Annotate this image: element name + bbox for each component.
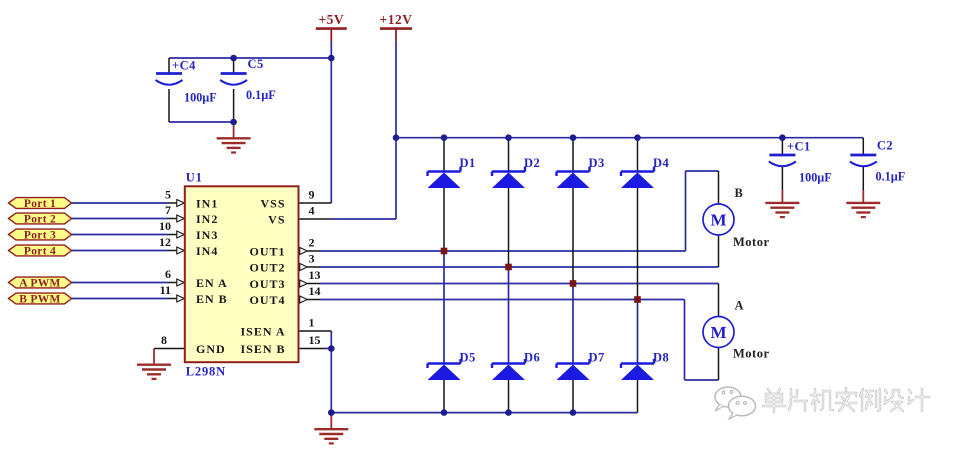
- svg-text:5: 5: [165, 188, 171, 202]
- svg-text:D7: D7: [589, 351, 605, 365]
- svg-text:15: 15: [309, 333, 321, 347]
- svg-text:IN3: IN3: [196, 228, 218, 242]
- svg-text:+C1: +C1: [787, 140, 811, 154]
- svg-text:GND: GND: [196, 342, 226, 356]
- svg-text:1: 1: [309, 316, 315, 330]
- svg-text:3: 3: [309, 252, 315, 266]
- svg-text:Port 2: Port 2: [24, 214, 56, 226]
- svg-text:8: 8: [161, 333, 167, 347]
- svg-text:100µF: 100µF: [799, 171, 832, 185]
- svg-text:IN2: IN2: [196, 212, 218, 226]
- svg-text:IN1: IN1: [196, 196, 218, 210]
- svg-text:L298N: L298N: [186, 365, 226, 379]
- svg-text:7: 7: [165, 203, 171, 217]
- svg-text:Port 4: Port 4: [24, 246, 56, 258]
- svg-text:Port 1: Port 1: [24, 198, 56, 210]
- svg-text:D3: D3: [589, 156, 605, 170]
- svg-text:M: M: [710, 323, 726, 342]
- svg-text:11: 11: [160, 283, 171, 297]
- svg-text:+C4: +C4: [172, 59, 196, 73]
- svg-text:D2: D2: [524, 156, 540, 170]
- svg-text:Motor: Motor: [733, 347, 770, 361]
- svg-text:B PWM: B PWM: [19, 294, 60, 306]
- svg-text:VS: VS: [268, 212, 285, 226]
- svg-text:C5: C5: [248, 57, 264, 71]
- svg-text:14: 14: [309, 284, 321, 298]
- svg-text:EN B: EN B: [196, 292, 228, 306]
- svg-text:9: 9: [309, 188, 315, 202]
- svg-text:0.1µF: 0.1µF: [876, 170, 906, 184]
- svg-text:12: 12: [159, 235, 171, 249]
- svg-text:A: A: [735, 299, 745, 313]
- svg-text:10: 10: [159, 219, 171, 233]
- svg-text:IN4: IN4: [196, 244, 218, 258]
- svg-text:VSS: VSS: [260, 196, 285, 210]
- svg-text:ISEN B: ISEN B: [240, 342, 285, 356]
- svg-text:Motor: Motor: [733, 235, 770, 249]
- svg-text:6: 6: [165, 267, 171, 281]
- svg-text:ISEN A: ISEN A: [240, 324, 285, 338]
- svg-text:U1: U1: [186, 171, 203, 185]
- svg-text:D8: D8: [653, 351, 669, 365]
- svg-text:D5: D5: [460, 351, 476, 365]
- svg-text:13: 13: [309, 268, 321, 282]
- svg-text:D4: D4: [653, 156, 670, 170]
- svg-text:OUT2: OUT2: [249, 260, 285, 274]
- svg-text:4: 4: [309, 204, 315, 218]
- svg-text:A PWM: A PWM: [19, 278, 60, 290]
- svg-text:OUT3: OUT3: [249, 277, 285, 291]
- svg-text:EN A: EN A: [196, 276, 228, 290]
- svg-text:Port 3: Port 3: [24, 230, 56, 242]
- svg-text:+5V: +5V: [318, 12, 344, 27]
- svg-text:100µF: 100µF: [184, 91, 217, 105]
- svg-text:OUT1: OUT1: [249, 244, 285, 258]
- svg-text:OUT4: OUT4: [249, 293, 285, 307]
- svg-text:D6: D6: [524, 351, 540, 365]
- svg-text:M: M: [710, 211, 726, 230]
- svg-text:2: 2: [309, 236, 315, 250]
- svg-text:B: B: [735, 186, 744, 200]
- svg-text:+12V: +12V: [380, 12, 413, 27]
- svg-text:D1: D1: [460, 156, 476, 170]
- svg-text:0.1µF: 0.1µF: [246, 88, 276, 102]
- svg-text:C2: C2: [877, 139, 893, 153]
